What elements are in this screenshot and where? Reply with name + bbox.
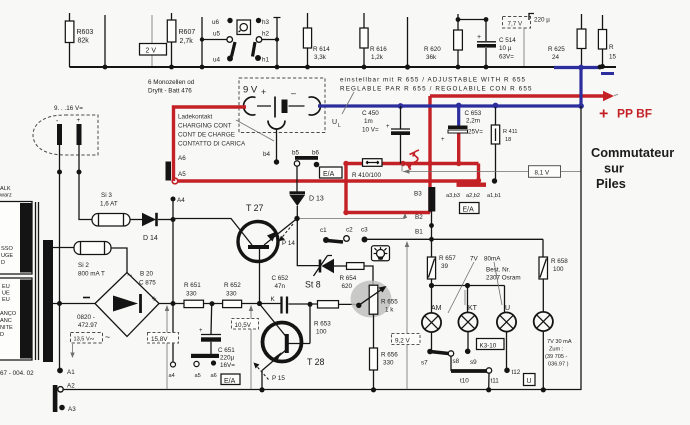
svg-text:220 µ: 220 µ (534, 17, 550, 24)
svg-text:E/A: E/A (224, 378, 236, 385)
resistor R657 (427, 239, 456, 285)
svg-text:R 656: R 656 (381, 352, 398, 359)
switch box E/A upper (320, 167, 343, 178)
terminal A5 A6 bar (166, 155, 187, 181)
svg-text:R 616: R 616 (370, 46, 387, 53)
svg-text:AM: AM (431, 305, 442, 312)
contact bar a2,b2 red (457, 183, 487, 187)
svg-text:PP BF: PP BF (617, 107, 652, 121)
contact s9 (465, 332, 477, 366)
contact bar c1-c2 (327, 241, 343, 243)
svg-text:+: + (386, 124, 390, 130)
wire vertical x407 (405, 17, 410, 70)
svg-text:b6: b6 (312, 150, 320, 157)
lamp KT (458, 305, 477, 332)
svg-text:E/A: E/A (323, 171, 335, 178)
svg-text:R 620: R 620 (424, 46, 441, 53)
svg-text:Si 2: Si 2 (78, 262, 89, 269)
wire top supply bus (70, 66, 617, 68)
svg-text:25V=: 25V= (468, 129, 483, 136)
svg-text:15: 15 (609, 54, 617, 61)
node h3 (256, 18, 270, 26)
svg-text:CONTATTO DI CARICA: CONTATTO DI CARICA (178, 141, 246, 148)
diode D13 (290, 167, 324, 222)
svg-text:ANÇO: ANÇO (0, 311, 17, 317)
svg-text:+: + (199, 328, 203, 334)
svg-text:~: ~ (105, 332, 110, 342)
svg-text:Dryfit - Batt 476: Dryfit - Batt 476 (148, 88, 192, 95)
svg-text:3,3k: 3,3k (314, 54, 327, 61)
resistor R616 (360, 13, 387, 69)
svg-text:Si 3: Si 3 (101, 192, 112, 199)
svg-text:0820 -: 0820 - (77, 314, 95, 321)
node u4 (213, 56, 233, 64)
svg-text:a1,b1: a1,b1 (487, 193, 501, 199)
resistor R651 (184, 282, 204, 308)
svg-text:9,2 V: 9,2 V (395, 338, 411, 345)
bridge rectifier B20 C875 (77, 270, 159, 342)
svg-text:330: 330 (226, 291, 237, 298)
lamp U (497, 305, 516, 332)
svg-text:80mA: 80mA (484, 256, 501, 263)
svg-text:2 V: 2 V (146, 48, 157, 55)
resistor R626 (598, 15, 616, 69)
contact bar s7-s8 (430, 352, 449, 354)
svg-text:330: 330 (383, 360, 394, 367)
svg-text:2,2m: 2,2m (466, 118, 480, 125)
svg-text:Piles: Piles (596, 176, 626, 191)
svg-text:t10: t10 (460, 378, 469, 385)
relay label K3-10 (477, 339, 505, 350)
svg-text:R: R (609, 44, 614, 51)
svg-text:St 8: St 8 (305, 280, 321, 290)
svg-text:1,6 AT: 1,6 AT (100, 201, 118, 208)
svg-text:a5: a5 (195, 373, 201, 379)
resistor R607 (167, 13, 195, 69)
wire plug minus (57, 145, 62, 370)
svg-text:36k: 36k (426, 54, 437, 61)
svg-text:A3: A3 (68, 406, 76, 413)
label einstellbar rows (332, 77, 533, 130)
terminal A3 with bar (53, 385, 76, 413)
svg-text:63V=: 63V= (499, 54, 514, 61)
svg-text:7,7 V: 7,7 V (508, 21, 524, 28)
node 13,5V measurement (70, 333, 102, 359)
svg-text:67 - 004. 02: 67 - 004. 02 (0, 370, 34, 377)
contact c3 (361, 227, 368, 243)
node h1 (255, 55, 270, 64)
svg-text:a6: a6 (211, 373, 217, 379)
wire vertical x277 (h-contact column) (274, 18, 281, 70)
charge contact right (309, 97, 321, 115)
svg-text:C 653: C 653 (465, 110, 482, 117)
capacitor C652 (271, 275, 318, 314)
capacitor C450 (362, 106, 410, 164)
svg-text:sur: sur (604, 161, 624, 176)
svg-text:u6: u6 (212, 19, 220, 26)
svg-text:D 14: D 14 (143, 235, 158, 242)
svg-text:NITE: NITE (0, 325, 13, 331)
svg-text:B3: B3 (414, 191, 422, 198)
svg-text:ANC: ANC (0, 318, 12, 324)
node 10,5V measurement (232, 305, 259, 389)
svg-text:24: 24 (552, 54, 560, 61)
node 15,8V measurement (148, 305, 179, 389)
svg-text:a4: a4 (169, 373, 175, 379)
node B3 bar (414, 187, 435, 212)
svg-text:+: + (477, 34, 481, 41)
battery cell plates (257, 97, 305, 118)
fuse Si2 (74, 242, 111, 278)
svg-text:1,2k: 1,2k (371, 54, 384, 61)
charge contact left (244, 97, 256, 115)
transistor T27 (238, 203, 297, 304)
switch blade h (253, 42, 256, 57)
potentiometer R655 (351, 281, 399, 318)
svg-text:R 651: R 651 (184, 282, 201, 289)
svg-text:R 410/100: R 410/100 (352, 172, 382, 179)
svg-text:–: – (291, 88, 296, 98)
terminal A4 and vertical (171, 197, 186, 368)
svg-text:R 625: R 625 (548, 46, 565, 53)
svg-text:472.97: 472.97 (78, 322, 98, 329)
svg-text:b5: b5 (292, 150, 300, 157)
wire secondary bottom (53, 303, 95, 305)
wire to bridge (111, 248, 127, 273)
contact a5 (194, 361, 199, 366)
diode D14 (142, 213, 173, 242)
lamp tuning indicator (534, 312, 553, 393)
clock symbol box (237, 20, 251, 35)
svg-text:10 V=: 10 V= (362, 127, 379, 134)
label + PP BF (599, 106, 652, 123)
wire positive rail (159, 301, 281, 306)
annotation arrow to B-bar (297, 213, 407, 219)
svg-text:b4: b4 (263, 151, 271, 158)
svg-text:39: 39 (441, 263, 449, 270)
contact bar a5,a6 (191, 354, 219, 358)
svg-text:~: ~ (127, 270, 132, 280)
label 7V 30mA (545, 339, 572, 368)
wire B1 (415, 212, 434, 240)
svg-text:R 411: R 411 (503, 129, 518, 135)
resistor R410/100 (352, 159, 382, 179)
svg-text:T 27: T 27 (246, 203, 264, 213)
charging contact lower jaw (268, 121, 285, 161)
contact c1 (320, 227, 329, 243)
resistor R653 (314, 301, 359, 336)
svg-text:h1: h1 (262, 57, 270, 64)
svg-text:C 652: C 652 (272, 275, 289, 282)
label Ladekontakt (178, 114, 274, 148)
node 8,1V measurement (402, 164, 581, 177)
svg-text:1m: 1m (364, 118, 373, 125)
terminal A2 (58, 383, 75, 392)
svg-text:u4: u4 (213, 57, 221, 64)
svg-text:P 14: P 14 (282, 240, 295, 247)
svg-text:R 654: R 654 (340, 275, 357, 282)
resistor R658 (539, 239, 568, 312)
svg-text:R603: R603 (77, 29, 94, 36)
wire secondary top (53, 247, 74, 249)
svg-text:B2: B2 (415, 214, 423, 221)
svg-text:Zum :: Zum : (549, 347, 564, 353)
fuse Si3 (92, 192, 130, 226)
svg-text:c3: c3 (361, 227, 368, 234)
svg-text:U: U (527, 378, 532, 385)
contact h2 (256, 31, 277, 43)
label U box (524, 374, 536, 386)
svg-text:E/A: E/A (463, 206, 475, 213)
capacitor C514 (477, 17, 516, 69)
svg-text:+: + (152, 294, 157, 304)
node a1,b1 (492, 178, 497, 183)
resistor R411 (491, 107, 517, 179)
label Commutateur sur Piles (591, 145, 674, 191)
svg-text:R 658: R 658 (551, 258, 568, 265)
transformer primary winding upper (0, 202, 32, 275)
contact t12 (504, 332, 521, 376)
svg-text:s8: s8 (453, 358, 460, 365)
wire vertical x202 (u-contact column) (200, 17, 205, 69)
svg-text:82k: 82k (78, 38, 90, 45)
wire link R620-C514 (458, 19, 486, 21)
wire right vertical rail (580, 106, 582, 390)
resistor R656 (370, 314, 399, 392)
svg-text:A6: A6 (178, 155, 186, 162)
transformer secondary winding (43, 240, 53, 362)
resistor R603 (65, 13, 93, 67)
wire lamp feed (429, 283, 505, 313)
svg-text:R 652: R 652 (224, 282, 241, 289)
svg-text:A4: A4 (177, 197, 185, 204)
svg-text:U: U (332, 119, 337, 126)
svg-text:7V: 7V (470, 256, 479, 263)
diode St8 (305, 256, 347, 290)
svg-text:+: + (599, 106, 608, 123)
wire bottom rail (63, 389, 582, 391)
svg-text:D: D (0, 332, 4, 338)
resistor R625 (548, 14, 586, 67)
svg-text:c2: c2 (346, 227, 353, 234)
svg-text:K3-10: K3-10 (480, 342, 497, 349)
svg-text:6 Monozellen od: 6 Monozellen od (148, 79, 195, 86)
svg-text:h2: h2 (262, 31, 270, 38)
svg-text:C 651: C 651 (218, 347, 235, 354)
svg-text:9. . .16 V=: 9. . .16 V= (54, 105, 83, 112)
svg-text:R 655: R 655 (381, 299, 398, 306)
svg-text:s7: s7 (421, 360, 428, 367)
wire red battery loop (172, 107, 478, 184)
svg-text:REGLABLE PAR R 655 / REGOLABI: REGLABLE PAR R 655 / REGOLABILE CON R 65… (340, 86, 533, 93)
charging spark symbol (407, 150, 420, 170)
svg-text:T 28: T 28 (307, 357, 325, 367)
wire plug plus (77, 145, 93, 220)
wire vertical x105 (103, 15, 108, 69)
svg-text:A1: A1 (67, 369, 75, 376)
contact u5 (202, 31, 233, 43)
svg-text:CONT DE CHARGE: CONT DE CHARGE (178, 132, 235, 139)
svg-text:D 13: D 13 (309, 196, 324, 203)
wire s8 down (450, 356, 452, 371)
wire (130, 219, 142, 221)
switch blade u (232, 42, 236, 57)
svg-text:einstellbar mit R 655 / ADJUS: einstellbar mit R 655 / ADJUSTABLE WITH … (340, 77, 526, 84)
contact s7 (421, 332, 433, 366)
svg-text:2307 Osram: 2307 Osram (486, 275, 521, 282)
wire emitter feed T27 (173, 219, 252, 246)
lamp AM (422, 305, 442, 332)
resistor R652 (223, 282, 242, 308)
svg-text:KT: KT (468, 305, 478, 312)
labels a4 a5 a6 (169, 373, 217, 379)
svg-text:16V=: 16V= (220, 362, 235, 369)
contact s8 (448, 351, 459, 365)
svg-text:ALK: ALK (0, 186, 11, 192)
trimmer arrow P14 (279, 224, 296, 247)
switch box E/A mid (460, 203, 480, 214)
svg-text:t11: t11 (491, 378, 500, 385)
resistor R620 (424, 14, 462, 69)
svg-text:L: L (338, 123, 341, 129)
trimmer arrow P15 (254, 363, 286, 383)
transformer primary winding lower (0, 278, 32, 360)
svg-text:D: D (1, 260, 5, 266)
capacitor 220u stub (529, 14, 550, 24)
svg-text:warz: warz (0, 193, 12, 199)
resistor R654 (340, 263, 374, 290)
capacitor C653 (441, 106, 483, 144)
svg-text:13,5 V∾: 13,5 V∾ (74, 337, 95, 343)
contact a6 (211, 360, 216, 365)
wire D13 node to St8 (297, 221, 319, 266)
svg-text:C 875: C 875 (139, 280, 156, 287)
wire lamp top rail (367, 237, 543, 242)
svg-text:R607: R607 (179, 29, 196, 36)
battery 9V dashed box (239, 78, 325, 133)
svg-text:s9: s9 (470, 359, 477, 366)
labels t10 t11 (460, 378, 499, 385)
transistor T28 (259, 305, 324, 393)
contact c2 (344, 227, 353, 242)
svg-text:R 653: R 653 (314, 321, 331, 328)
wire red switch loop (343, 132, 481, 215)
svg-text:18: 18 (505, 137, 511, 143)
svg-text:+: + (261, 87, 266, 97)
svg-text:h3: h3 (262, 19, 270, 26)
svg-text:A5: A5 (178, 171, 186, 178)
svg-text:C 514: C 514 (499, 37, 516, 44)
svg-text:CHARGING CONT: CHARGING CONT (178, 123, 232, 130)
svg-text:A2: A2 (67, 383, 75, 390)
svg-text:B1: B1 (415, 229, 423, 236)
wire blue battery feed (318, 65, 614, 109)
resistor R614 (303, 13, 330, 69)
svg-text:Ladekontakt: Ladekontakt (178, 114, 213, 121)
transformer core (36, 202, 39, 360)
svg-text:C 450: C 450 (362, 110, 379, 117)
label 7V 80mA Osram (448, 256, 521, 314)
svg-text:8,1 V: 8,1 V (535, 170, 551, 177)
svg-text:R 614: R 614 (313, 46, 330, 53)
svg-text:UE: UE (2, 291, 10, 297)
svg-text:P 15: P 15 (272, 375, 285, 382)
terminal A1 (57, 368, 75, 376)
node 9,2V measurement (392, 241, 421, 389)
lamp annotation icon (372, 246, 390, 261)
contact t11 (486, 368, 492, 393)
svg-text:220µ: 220µ (220, 355, 235, 362)
node b4 (263, 151, 279, 165)
svg-text:(39 705 -: (39 705 - (545, 354, 568, 360)
svg-text:EU: EU (2, 284, 10, 290)
svg-text:036.97 ): 036.97 ) (548, 362, 569, 368)
svg-text:t12: t12 (512, 369, 521, 376)
label wire colour schwarz (0, 186, 12, 199)
svg-text:10,5V: 10,5V (235, 322, 252, 329)
svg-text:u5: u5 (213, 31, 221, 38)
wire red PP BF line (430, 91, 618, 213)
svg-text:330: 330 (186, 291, 197, 298)
contact bar t10-t11 (451, 369, 487, 373)
label a3,b3 a2,b2 a1,b1 (446, 193, 501, 199)
svg-text:15,8V: 15,8V (151, 336, 168, 343)
svg-text:10 µ: 10 µ (499, 45, 512, 52)
svg-text:9 V: 9 V (243, 85, 258, 96)
svg-text:Best. Nr.: Best. Nr. (486, 267, 510, 274)
svg-text:Commutateur: Commutateur (591, 145, 674, 160)
svg-text:800 mA T: 800 mA T (78, 271, 105, 278)
node u6 (212, 18, 233, 26)
svg-text:a2,b2: a2,b2 (466, 193, 480, 199)
svg-text:EU: EU (2, 297, 10, 303)
contact b5 b6 bar (292, 150, 320, 168)
label 6 Monozellen (148, 79, 195, 95)
svg-text:2,7k: 2,7k (180, 38, 194, 45)
svg-text:100: 100 (553, 266, 564, 273)
switch box E/A lower (221, 374, 240, 385)
svg-text:7V 30 mA: 7V 30 mA (547, 339, 572, 345)
svg-text:+: + (77, 117, 81, 124)
svg-text:47n: 47n (275, 283, 286, 290)
svg-text:620: 620 (342, 283, 353, 290)
node 2V measurement line (140, 15, 167, 66)
capacitor C651 (199, 304, 235, 369)
svg-text:B 20: B 20 (140, 271, 153, 278)
svg-text:100: 100 (316, 329, 327, 336)
svg-text:1 k: 1 k (385, 307, 394, 314)
svg-text:SSO: SSO (1, 246, 13, 252)
svg-text:a3,b3: a3,b3 (446, 193, 460, 199)
node 7,7V measurement (503, 17, 531, 67)
svg-text:+: + (441, 137, 445, 143)
svg-text:R 657: R 657 (439, 255, 456, 262)
svg-text:c1: c1 (320, 227, 327, 234)
connector DC plug (33, 115, 98, 155)
svg-text:UGE: UGE (1, 253, 13, 259)
svg-text:U: U (505, 305, 510, 312)
